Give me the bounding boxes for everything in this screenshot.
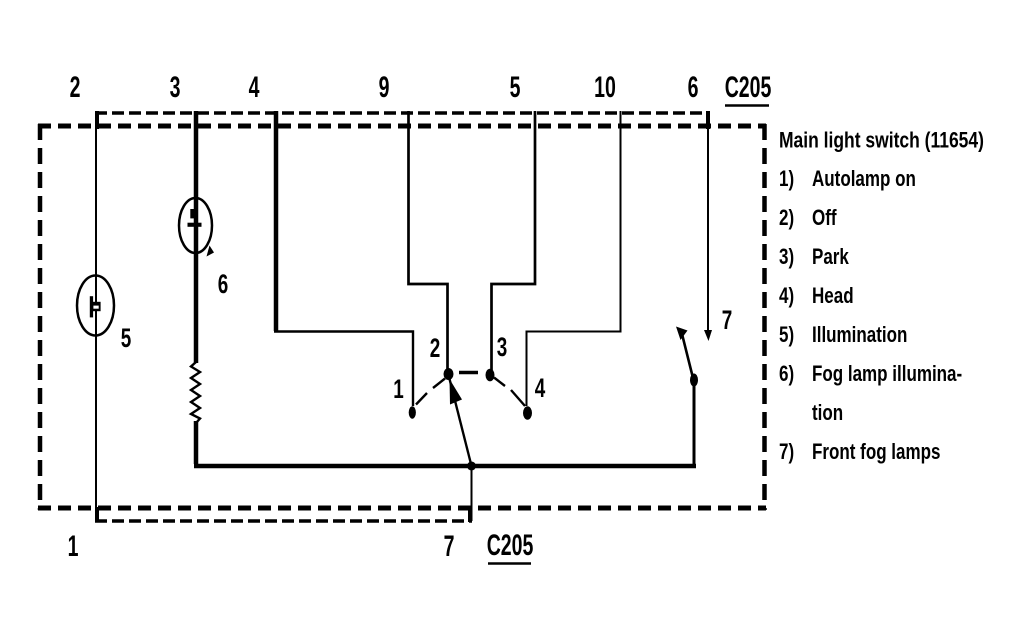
svg-text:Park: Park <box>812 245 849 270</box>
fog switch pivot blob <box>690 374 698 387</box>
contact 1 dot <box>409 406 416 418</box>
svg-text:4: 4 <box>535 373 546 403</box>
svg-text:Fog lamp illumina-: Fog lamp illumina- <box>812 362 962 387</box>
svg-text:3: 3 <box>497 332 508 362</box>
svg-text:7): 7) <box>779 440 794 465</box>
connector C205 top right stub <box>706 111 710 129</box>
svg-text:5: 5 <box>510 71 521 104</box>
coil zigzag on fog wire <box>191 362 200 423</box>
svg-text:5): 5) <box>779 323 794 348</box>
wire pin 4 to contact 1 <box>274 332 413 407</box>
position link dashes contact3-contact4 <box>494 378 525 407</box>
lamp 6 fog illumination bulb <box>179 198 212 253</box>
wiper arrowhead <box>450 379 463 405</box>
connector C205 bottom right stub <box>468 507 472 522</box>
svg-text:1: 1 <box>68 530 79 563</box>
svg-text:3): 3) <box>779 245 794 270</box>
svg-text:3: 3 <box>170 71 181 104</box>
wire pin 10 to contact 4 <box>527 111 621 406</box>
lamp 6 pointer mark <box>207 246 215 257</box>
connector C205 bottom left stub <box>95 507 99 522</box>
svg-text:2: 2 <box>70 71 81 104</box>
svg-text:9: 9 <box>379 71 390 104</box>
junction dot <box>467 462 476 471</box>
connector C205 bottom dashed line <box>95 519 472 523</box>
svg-text:C205: C205 <box>487 529 534 562</box>
wire pin 3 fog lamp feed <box>194 111 199 363</box>
wire pin 6 <box>707 111 709 331</box>
connector C205 top left stub <box>95 111 99 129</box>
svg-text:5: 5 <box>121 323 132 353</box>
contact 4 dot <box>523 406 532 420</box>
svg-text:tion: tion <box>812 401 843 426</box>
svg-text:2: 2 <box>430 333 441 363</box>
position link dash contact2-contact3 <box>459 371 478 375</box>
contact 3 blob <box>486 369 495 382</box>
svg-text:Illumination: Illumination <box>812 323 907 348</box>
wire pin 5 to contact 3 <box>492 111 536 370</box>
svg-text:Head: Head <box>812 284 854 309</box>
svg-text:10: 10 <box>594 71 616 104</box>
fog switch arm arrowhead <box>676 327 688 341</box>
svg-text:4: 4 <box>249 71 260 104</box>
svg-text:6): 6) <box>779 362 794 387</box>
svg-text:1): 1) <box>779 167 794 192</box>
wire coil to corner <box>194 421 199 464</box>
svg-text:Main light switch (11654): Main light switch (11654) <box>779 129 984 153</box>
wire fog switch to bottom wire <box>693 382 696 466</box>
svg-text:6: 6 <box>218 269 229 299</box>
switch wiper arm <box>449 377 472 466</box>
lamp 5 illumination bulb <box>77 276 114 336</box>
svg-text:Autolamp on: Autolamp on <box>812 167 916 192</box>
svg-text:C205: C205 <box>725 71 772 104</box>
svg-text:7: 7 <box>444 530 455 563</box>
wire junction to terminal 7 <box>471 466 473 521</box>
svg-text:Off: Off <box>812 206 837 231</box>
thick bottom wire <box>194 464 696 469</box>
connector C205 top dashed line <box>95 111 709 115</box>
svg-text:6: 6 <box>688 71 699 104</box>
svg-text:7: 7 <box>722 305 733 335</box>
contact 2 blob <box>444 368 454 380</box>
svg-text:Front fog lamps: Front fog lamps <box>812 440 941 465</box>
svg-text:1: 1 <box>393 374 404 404</box>
wire pin 4 <box>274 111 279 331</box>
wire pin 9 to contact 2 <box>409 111 448 370</box>
wire pin 2 / terminal 1 <box>95 128 97 521</box>
main light switch dashed outline box <box>38 124 766 129</box>
position link dashes contact2-contact1 <box>416 379 445 405</box>
svg-text:4): 4) <box>779 284 794 309</box>
pin 6 arrowhead fixed contact <box>704 330 712 341</box>
svg-text:2): 2) <box>779 206 794 231</box>
fog switch arm <box>682 334 694 382</box>
